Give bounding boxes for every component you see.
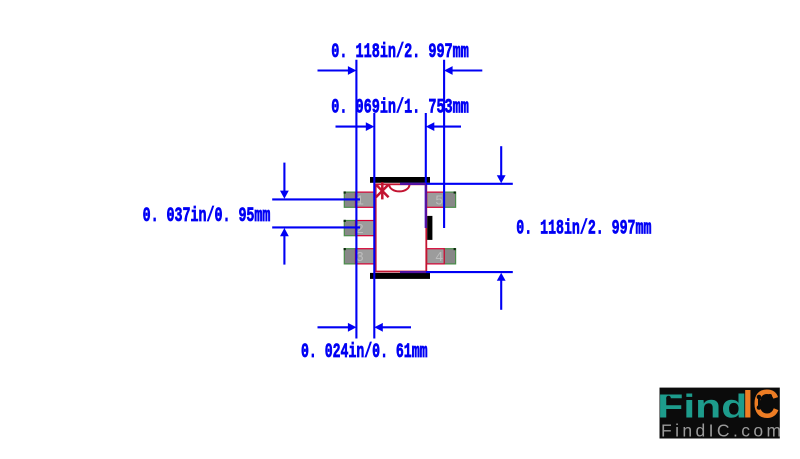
svg-text:5: 5: [435, 195, 443, 210]
svg-text:0. 037in/0. 95mm: 0. 037in/0. 95mm: [143, 205, 271, 228]
svg-text:0. 024in/0. 61mm: 0. 024in/0. 61mm: [301, 341, 428, 364]
svg-text:Find: Find: [657, 388, 747, 425]
svg-text:0. 118in/2. 997mm: 0. 118in/2. 997mm: [516, 218, 651, 241]
svg-text:4: 4: [435, 251, 443, 266]
svg-text:0. 118in/2. 997mm: 0. 118in/2. 997mm: [331, 41, 469, 64]
svg-text:FindIC.com: FindIC.com: [661, 421, 784, 441]
svg-text:0. 069in/1. 753mm: 0. 069in/1. 753mm: [331, 97, 469, 120]
